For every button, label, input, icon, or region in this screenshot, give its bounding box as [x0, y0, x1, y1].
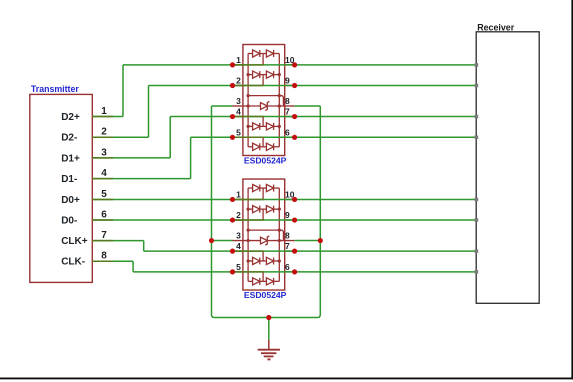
svg-text:4: 4: [236, 107, 241, 117]
svg-text:D2+: D2+: [61, 112, 80, 123]
svg-text:Receiver: Receiver: [477, 22, 515, 32]
svg-text:Transmitter: Transmitter: [31, 84, 79, 94]
svg-text:8: 8: [101, 251, 107, 262]
svg-text:5: 5: [101, 189, 107, 200]
svg-text:3: 3: [236, 231, 241, 241]
svg-text:5: 5: [236, 262, 241, 272]
svg-text:D0+: D0+: [61, 195, 80, 206]
svg-text:CLK-: CLK-: [61, 257, 85, 268]
svg-text:9: 9: [285, 210, 290, 220]
svg-text:D1+: D1+: [61, 153, 80, 164]
svg-text:ESD0524P: ESD0524P: [244, 290, 287, 300]
svg-text:10: 10: [285, 55, 295, 65]
svg-text:10: 10: [285, 189, 295, 199]
svg-text:2: 2: [236, 76, 241, 86]
svg-text:8: 8: [285, 96, 290, 106]
svg-text:7: 7: [101, 230, 107, 241]
svg-text:9: 9: [285, 76, 290, 86]
svg-text:7: 7: [285, 241, 290, 251]
svg-text:7: 7: [285, 107, 290, 117]
svg-text:1: 1: [236, 189, 241, 199]
svg-text:4: 4: [101, 168, 107, 179]
svg-text:2: 2: [236, 210, 241, 220]
svg-text:D0-: D0-: [61, 215, 77, 226]
svg-text:6: 6: [101, 209, 107, 220]
svg-text:3: 3: [236, 96, 241, 106]
svg-text:1: 1: [101, 106, 107, 117]
svg-text:CLK+: CLK+: [61, 236, 88, 247]
svg-text:ESD0524P: ESD0524P: [244, 156, 287, 166]
svg-text:6: 6: [285, 262, 290, 272]
svg-text:D1-: D1-: [61, 174, 77, 185]
svg-text:3: 3: [101, 147, 107, 158]
svg-text:D2-: D2-: [61, 133, 77, 144]
svg-text:8: 8: [285, 231, 290, 241]
svg-text:1: 1: [236, 55, 241, 65]
svg-text:4: 4: [236, 241, 241, 251]
svg-text:2: 2: [101, 127, 107, 138]
svg-text:6: 6: [285, 127, 290, 137]
svg-text:5: 5: [236, 127, 241, 137]
